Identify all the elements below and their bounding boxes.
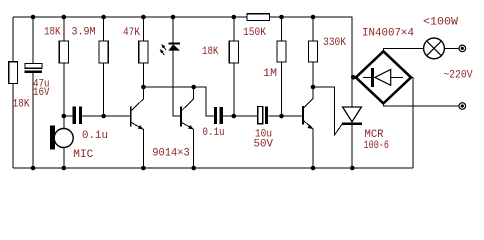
wire 330K column upper xyxy=(312,17,314,41)
capacitor 47u 16V (electrolytic, top plate hollow) xyxy=(25,63,42,68)
resistor 47K xyxy=(139,41,148,63)
node bottom rail junctions xyxy=(31,166,36,171)
wire bridge bottom corner to terminal xyxy=(383,103,459,106)
resistor 330K xyxy=(309,41,318,62)
wire mic column lower xyxy=(63,147,65,168)
terminal AC neutral xyxy=(459,103,466,110)
lamp <100W xyxy=(424,38,445,59)
transistor Q3 (9014) xyxy=(302,106,304,125)
svg-text:0.1u: 0.1u xyxy=(203,127,225,139)
wire top rail right section, corner down to bridge/SCR xyxy=(270,17,352,107)
wire 330K column lower xyxy=(312,62,314,87)
photodiode column upper xyxy=(172,17,174,42)
svg-text:330K: 330K xyxy=(323,37,346,49)
capacitor 10u 50V (electrolytic) xyxy=(258,107,263,124)
wire 47u column upper xyxy=(32,17,34,63)
resistor 3.9M xyxy=(99,41,108,63)
svg-text:0.1u: 0.1u xyxy=(82,130,108,142)
bridge rectifier IN4007x4 xyxy=(356,51,411,103)
microphone MIC xyxy=(54,129,73,148)
svg-text:16V: 16V xyxy=(33,87,50,99)
wire collector bus Q1-Q2 xyxy=(143,86,193,88)
svg-text:<100W: <100W xyxy=(423,17,458,29)
wire 47u column lower xyxy=(32,73,34,168)
resistor 18K (left column) xyxy=(9,62,18,84)
svg-text:47K: 47K xyxy=(123,27,140,39)
capacitor 0.1u (second coupling) xyxy=(214,107,217,124)
wire bottom rail xyxy=(13,167,413,169)
wire 47K column lower to collector node xyxy=(142,63,144,87)
wire base line mic to cap xyxy=(64,115,73,117)
wire cap to 18K node xyxy=(223,115,259,117)
wire 18K mic column upper xyxy=(63,17,65,41)
wire 3.9M column upper xyxy=(103,17,105,41)
resistor 18K (second stage load) xyxy=(229,41,238,63)
wire SCR cathode to bottom rail xyxy=(351,125,353,168)
svg-text:100-6: 100-6 xyxy=(364,140,390,152)
node bridge left corner xyxy=(351,75,356,80)
wire 3.9M column lower xyxy=(103,63,105,116)
wire photodiode to Q2 base xyxy=(173,51,181,116)
wire cap to Q1 base xyxy=(82,115,131,117)
resistor 18K (mic bias) xyxy=(59,41,68,63)
wire 10u to Q3 base xyxy=(268,115,303,117)
svg-text:150K: 150K xyxy=(243,27,266,39)
wire gate from Q3 collector to SCR xyxy=(313,87,342,135)
svg-text:18K: 18K xyxy=(13,99,30,111)
wire left column upper (to resistor 18K) xyxy=(12,17,14,62)
node collector bus junctions xyxy=(141,85,146,90)
transistor Q2 (9014) xyxy=(180,107,182,127)
node top rail junctions xyxy=(31,15,36,20)
node base line junctions xyxy=(62,114,67,119)
wire 1M column upper xyxy=(281,17,283,41)
wire 1M column lower xyxy=(281,62,283,116)
transistor Q1 (9014) xyxy=(130,107,132,127)
resistor 1M xyxy=(277,41,286,62)
svg-text:~220V: ~220V xyxy=(444,70,473,82)
svg-text:3.9M: 3.9M xyxy=(72,27,96,39)
thyristor MCR100-6 xyxy=(343,107,362,122)
wire mic column middle xyxy=(63,63,65,129)
resistor 150K (series in top rail) xyxy=(247,14,270,21)
svg-text:9014×3: 9014×3 xyxy=(152,148,190,160)
terminal AC line xyxy=(459,45,466,52)
wire 18K column lower xyxy=(233,63,235,116)
wire 18K column upper xyxy=(233,17,235,41)
svg-text:50V: 50V xyxy=(254,139,274,151)
capacitor 0.1u (first coupling) xyxy=(73,107,76,125)
wire lamp to terminal xyxy=(444,47,459,49)
wire Q2 collector to coupling cap xyxy=(194,87,214,116)
wire right edge vertical from bridge right corner xyxy=(410,77,413,168)
svg-text:18K: 18K xyxy=(44,27,61,39)
svg-text:1M: 1M xyxy=(263,68,277,80)
wire left column lower xyxy=(12,84,14,168)
photodiode (light sensor) xyxy=(168,42,180,44)
svg-text:IN4007×4: IN4007×4 xyxy=(362,28,414,40)
wire bridge top corner to lamp xyxy=(383,48,423,51)
wire 47K column upper xyxy=(142,17,144,41)
svg-text:18K: 18K xyxy=(202,46,219,58)
wire top rail left section xyxy=(13,16,247,18)
svg-text:MIC: MIC xyxy=(73,149,93,161)
